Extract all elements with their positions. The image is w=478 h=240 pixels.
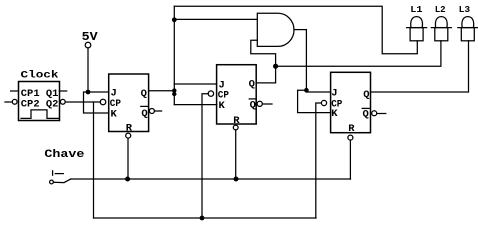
- lamp L1 socket rect: [410, 28, 423, 41]
- clock pin Q2 bubble: [60, 99, 65, 104]
- svg-text:CP2 Q2: CP2 Q2: [21, 99, 59, 110]
- clock pin CP1 stub: [11, 90, 19, 92]
- wire clock net up to FF3 CP: [316, 103, 322, 218]
- clock generator box: [19, 82, 60, 121]
- svg-text:Clock: Clock: [21, 70, 59, 82]
- lamp L2 dome: [435, 17, 447, 28]
- switch lever: [53, 179, 70, 183]
- FF1 Qbar overline: [141, 105, 148, 107]
- wire FF1 Q output: [149, 90, 175, 92]
- clock pin CP2 stub: [5, 101, 12, 103]
- FF2 Qbar stub dash: [263, 103, 272, 105]
- FF3 Qbar stub dash: [377, 113, 386, 115]
- clock pin CP2 bubble: [12, 99, 17, 104]
- FF3 R bubble: [348, 135, 353, 140]
- node FF2 Q junction dot: [273, 64, 278, 69]
- svg-text:5V: 5V: [82, 30, 99, 44]
- node FF1 Q junction dot: [172, 88, 176, 92]
- FF2 R bubble: [233, 125, 238, 130]
- node 5V junction dot: [86, 90, 91, 95]
- wire FF3 R to reset rail: [349, 140, 351, 179]
- wire clock Q2 to FF1 CP: [65, 101, 100, 103]
- svg-text:K: K: [331, 108, 338, 120]
- wire FF1 Q to FF2 K: [174, 104, 216, 106]
- FF1 Qbar output bubble: [149, 109, 154, 114]
- wire AND output to FF3 K: [298, 90, 331, 112]
- svg-text:R: R: [348, 123, 355, 135]
- FF1 R bubble: [126, 133, 131, 138]
- FF3 Qbar output bubble: [372, 111, 377, 116]
- wire AND output to FF3 J: [306, 91, 330, 93]
- svg-text:Chave: Chave: [44, 149, 84, 161]
- node clock net junction at FF2 branch: [200, 216, 205, 221]
- wire FF3 Q to L3 lamp: [371, 41, 469, 92]
- AND gate U4 body: [257, 13, 294, 46]
- node AND output junction dot: [304, 88, 309, 93]
- lamp L2 socket rect: [435, 28, 448, 41]
- wire FF2 Q to AND input B: [251, 40, 276, 83]
- wire 5V to FF1 J: [88, 91, 109, 93]
- wire clock net bottom rail: [94, 217, 317, 219]
- clock pin Q1 stub: [60, 90, 67, 92]
- svg-text:Q: Q: [363, 109, 369, 121]
- svg-text:Q: Q: [141, 88, 147, 100]
- node reset junction FF2: [234, 177, 239, 182]
- svg-text:Q: Q: [363, 89, 369, 101]
- wire to AND gate input A: [174, 18, 257, 20]
- node junction to AND input A: [172, 17, 177, 22]
- wire clock net down at x94: [93, 102, 95, 218]
- FF3 CP input bubble: [321, 100, 326, 105]
- wire FF2 R to reset rail: [235, 130, 237, 179]
- lamp L1 dome: [411, 17, 423, 28]
- switch fixed contact tick horizontal: [55, 173, 63, 175]
- wire FF1 Q to L1 lamp (top run): [174, 6, 417, 54]
- wire 5V to FF1 K: [84, 92, 109, 113]
- svg-text:Q: Q: [141, 108, 147, 120]
- node FF1 Q junction dot lower: [172, 92, 176, 96]
- wire 5V down to junction: [87, 48, 89, 92]
- lamp L3 dome: [462, 17, 474, 28]
- node reset junction FF1: [125, 177, 130, 182]
- svg-text:Q: Q: [250, 100, 256, 112]
- svg-text:R: R: [126, 122, 133, 134]
- flip-flop FF3 box: [331, 72, 371, 132]
- FF2 Qbar overline: [249, 98, 256, 100]
- FF2 Qbar output bubble: [257, 101, 262, 106]
- wire FF1 Q vertical riser: [173, 6, 175, 104]
- clock waveform symbol: [21, 110, 59, 119]
- svg-text:Q: Q: [249, 79, 255, 91]
- flip-flop FF2 box: [217, 65, 257, 124]
- switch pole circle: [50, 180, 54, 184]
- FF3 Qbar overline: [362, 107, 369, 109]
- FF1 CP input bubble: [100, 99, 106, 105]
- wire FF1 R to reset rail: [127, 138, 129, 179]
- wire reset rail: [71, 178, 351, 180]
- FF2 CP input bubble: [208, 91, 213, 96]
- wire FF1 Q to FF2 J: [174, 83, 216, 85]
- FF1 Qbar stub dash: [154, 110, 161, 112]
- lamp L2 base line: [431, 27, 451, 29]
- wire AND output down to FF3: [305, 30, 307, 92]
- AND gate output stub: [294, 29, 306, 31]
- flip-flop FF1 box: [109, 74, 149, 132]
- lamp L3 base line: [458, 27, 478, 29]
- wire FF2 Q to L2 lamp: [276, 41, 441, 66]
- svg-text:L1: L1: [410, 4, 423, 15]
- power terminal 5V circle: [85, 42, 91, 48]
- switch fixed contact tick vertical: [52, 171, 54, 175]
- svg-text:K: K: [111, 108, 118, 120]
- lamp L1 base line: [407, 27, 427, 29]
- svg-text:L2: L2: [435, 4, 446, 15]
- svg-text:L3: L3: [459, 4, 471, 15]
- wire clock net up to FF2 CP: [202, 94, 208, 218]
- svg-text:K: K: [219, 100, 226, 112]
- lamp L3 socket rect: [461, 28, 474, 41]
